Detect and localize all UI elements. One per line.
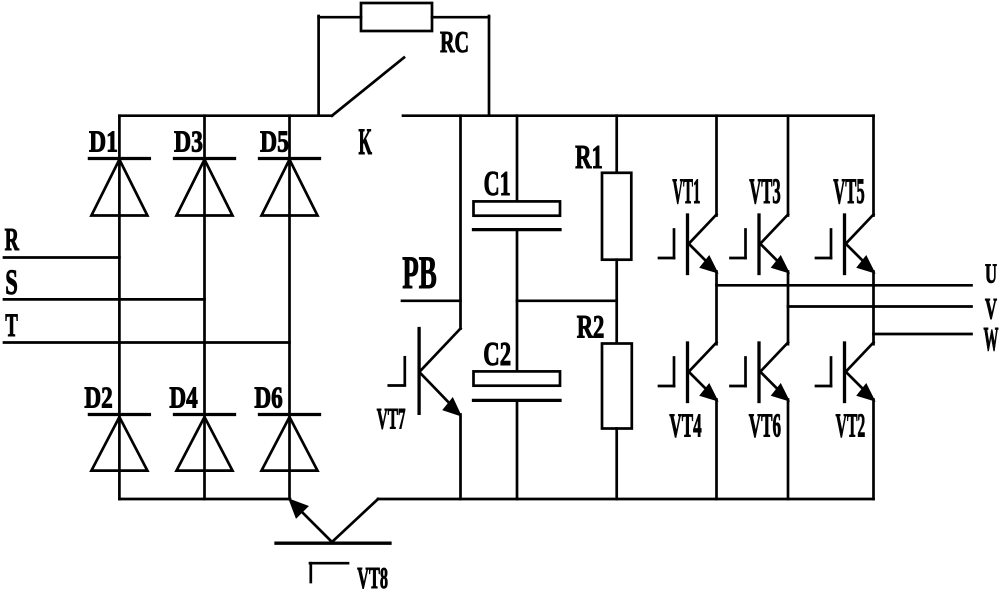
svg-text:VT6: VT6 [749,407,781,444]
svg-text:C2: C2 [483,336,511,373]
svg-text:D6: D6 [254,381,282,415]
svg-text:D1: D1 [89,124,118,159]
svg-text:VT1: VT1 [672,171,700,211]
svg-text:RC: RC [440,25,469,59]
svg-text:PB: PB [402,247,437,299]
svg-text:K: K [359,122,373,163]
svg-text:R2: R2 [577,310,605,346]
svg-text:R1: R1 [575,138,603,176]
svg-text:VT2: VT2 [836,407,866,444]
svg-text:D4: D4 [169,381,197,415]
svg-text:VT7: VT7 [377,403,406,436]
svg-text:VT8: VT8 [357,561,388,595]
svg-text:VT4: VT4 [669,407,701,444]
svg-text:C1: C1 [484,165,511,203]
svg-text:D3: D3 [174,124,203,159]
svg-text:S: S [5,262,18,302]
svg-text:D2: D2 [84,381,112,415]
svg-text:T: T [5,307,18,344]
svg-text:D5: D5 [260,124,289,159]
svg-text:VT3: VT3 [749,171,781,211]
svg-text:W: W [984,321,999,358]
svg-text:R: R [5,222,20,257]
svg-text:VT5: VT5 [833,171,865,211]
svg-text:U: U [985,259,997,289]
